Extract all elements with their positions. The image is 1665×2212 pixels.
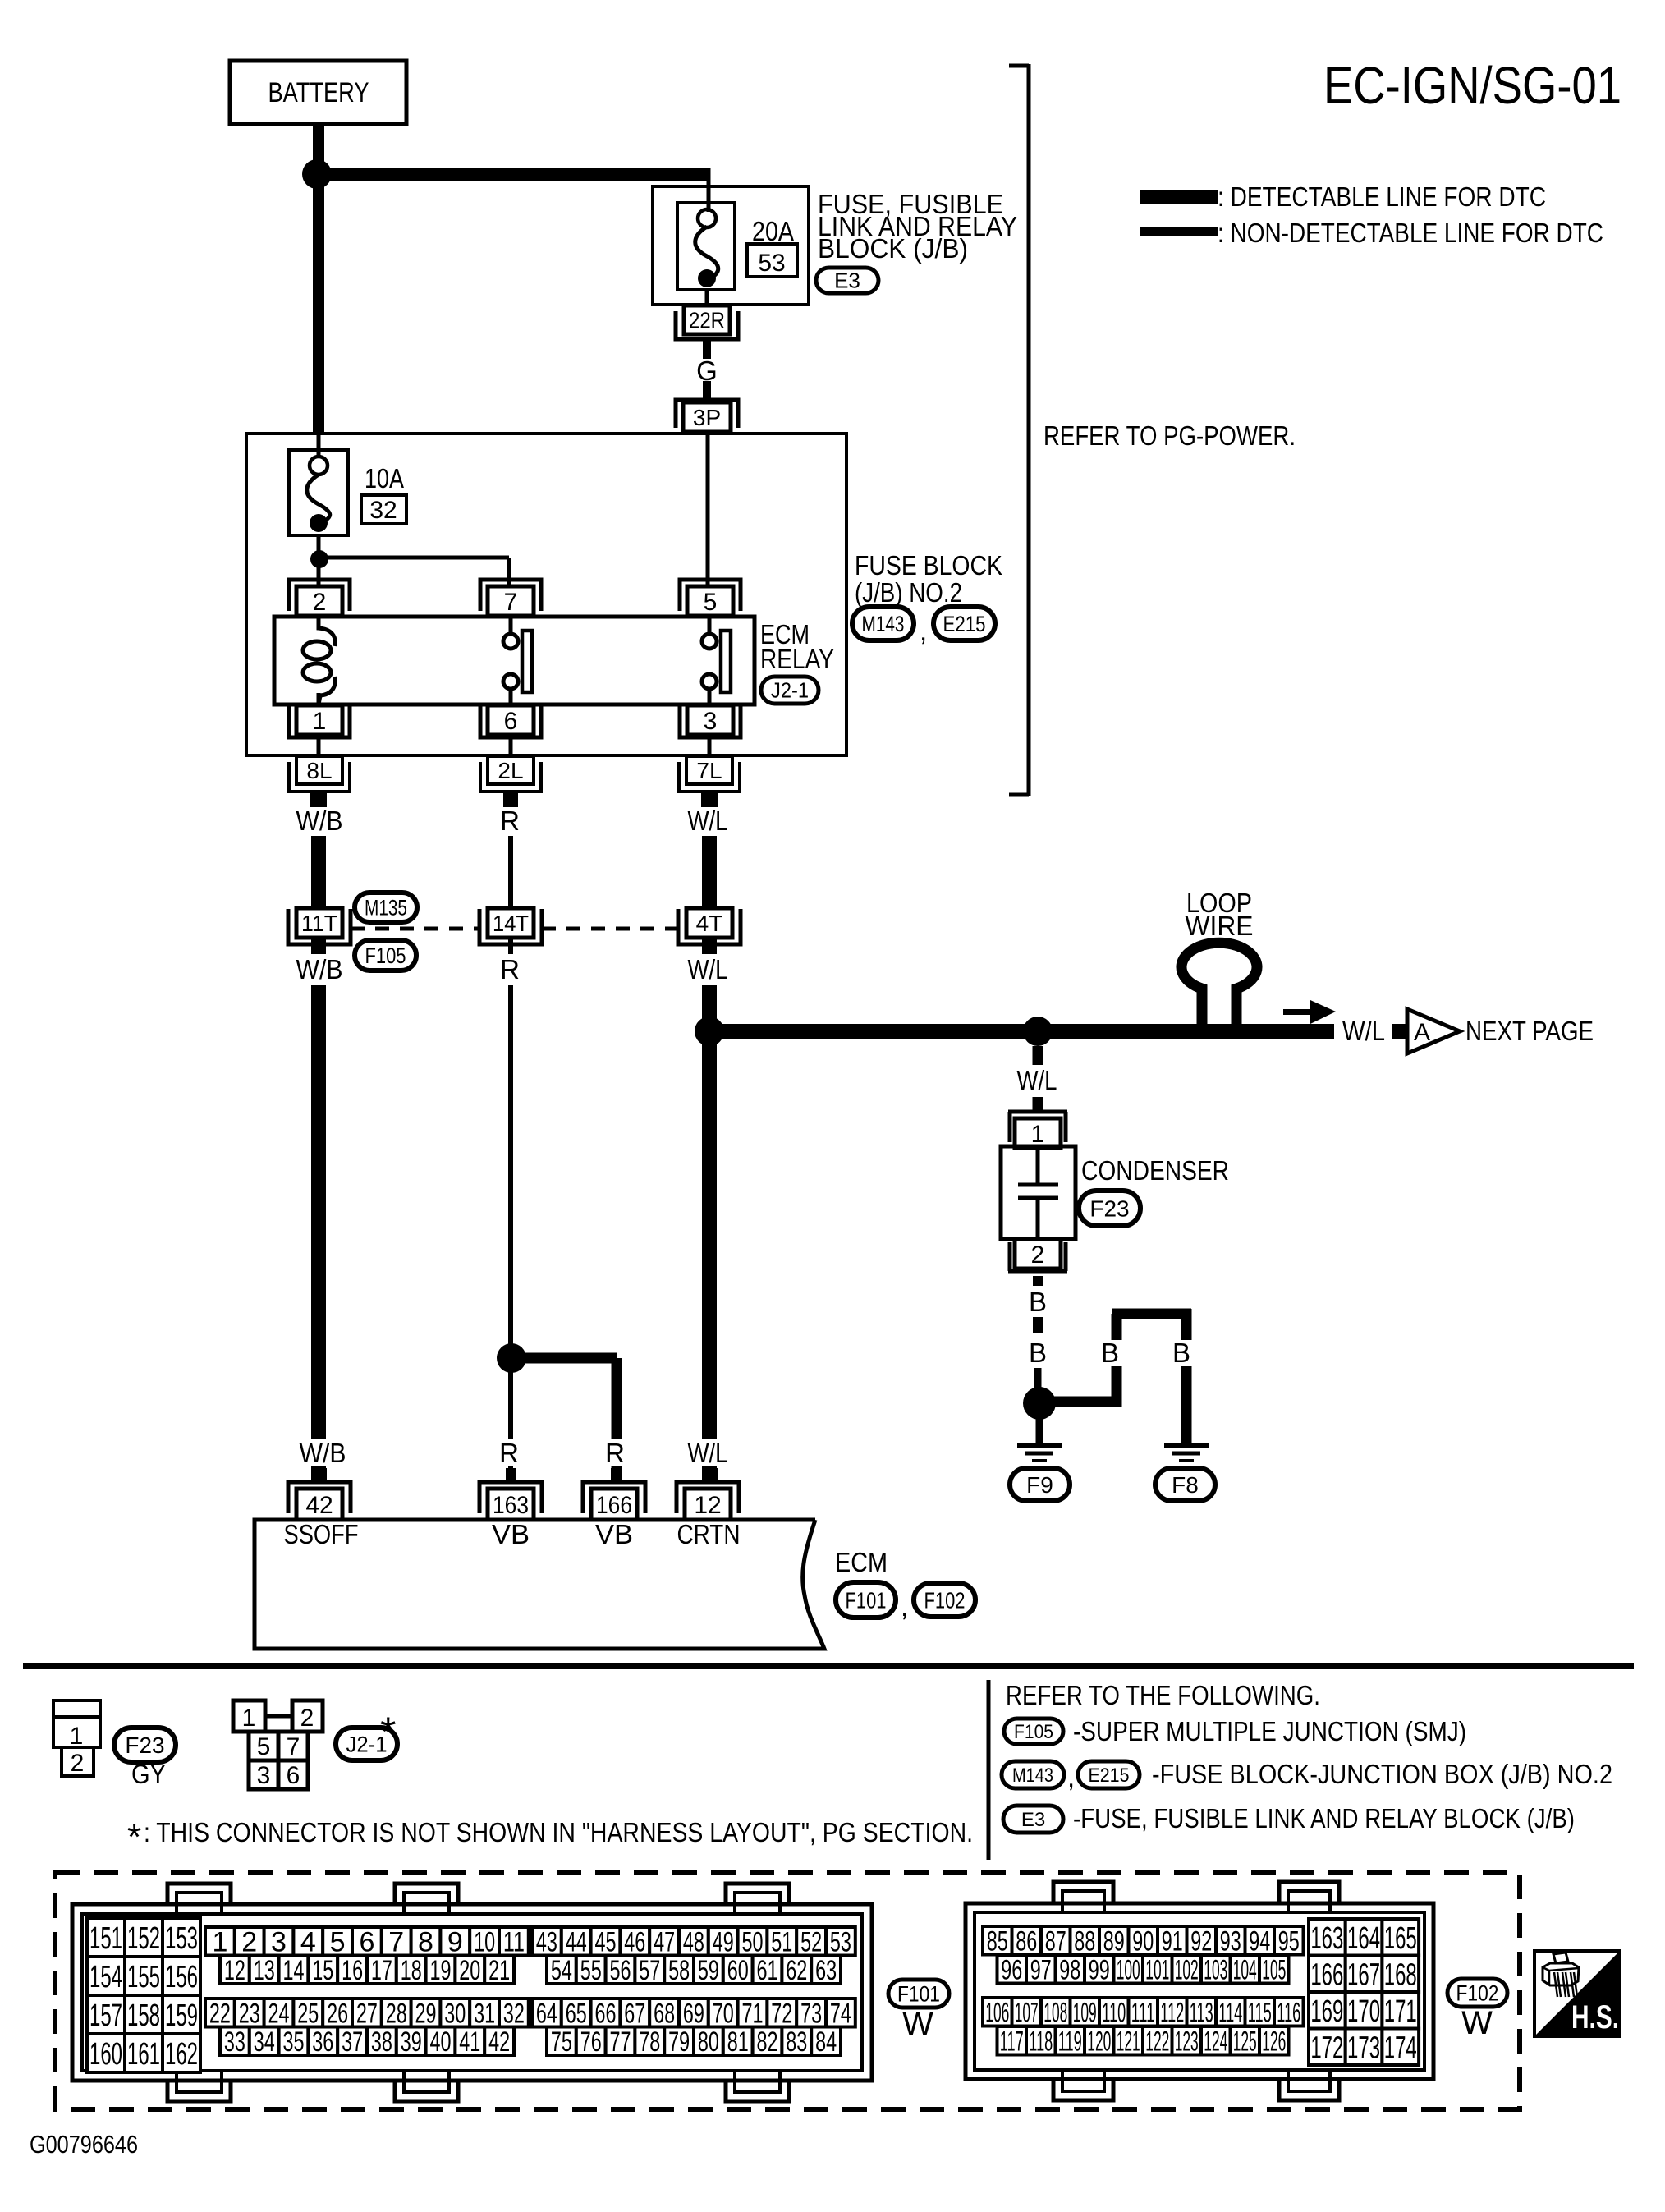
svg-text:BLOCK (J/B): BLOCK (J/B) [818,233,968,264]
svg-text:82: 82 [757,2026,778,2058]
svg-text:117: 117 [1000,2026,1024,2057]
svg-text:,: , [920,616,927,646]
svg-text:35: 35 [283,2026,305,2058]
svg-text:159: 159 [165,1999,198,2033]
svg-text:2: 2 [71,1750,85,1777]
svg-text:B: B [1172,1338,1190,1368]
svg-text:22: 22 [209,1998,231,2029]
svg-text:24: 24 [268,1998,290,2029]
svg-text:102: 102 [1175,1954,1199,1985]
svg-text:R: R [500,805,520,836]
svg-text:80: 80 [698,2026,719,2058]
svg-text:F101: F101 [897,1981,940,2006]
svg-text:120: 120 [1087,2026,1111,2057]
svg-text:7: 7 [388,1926,404,1957]
svg-text:12: 12 [694,1492,721,1519]
svg-text:162: 162 [165,2037,198,2072]
svg-text:,: , [1067,1762,1075,1792]
svg-text:44: 44 [566,1926,587,1957]
svg-text:W/L: W/L [1017,1065,1057,1095]
svg-text:91: 91 [1162,1925,1183,1957]
svg-text:168: 168 [1384,1957,1417,1992]
svg-text:157: 157 [89,1999,122,2033]
svg-text:31: 31 [474,1998,495,2029]
svg-text:42: 42 [488,2026,510,2058]
svg-text:51: 51 [771,1926,792,1957]
svg-text:W: W [902,2006,933,2042]
svg-text:CONDENSER: CONDENSER [1081,1155,1229,1186]
svg-text:71: 71 [742,1998,764,2029]
svg-text:R: R [605,1438,625,1468]
svg-text:GY: GY [131,1759,166,1789]
svg-text:153: 153 [165,1921,198,1956]
svg-text:F101: F101 [846,1587,887,1613]
svg-text:103: 103 [1204,1954,1227,1985]
svg-text:32: 32 [503,1998,525,2029]
svg-text:114: 114 [1218,1997,1242,2028]
svg-text:94: 94 [1249,1925,1270,1957]
svg-text:: DETECTABLE LINE FOR DTC: : DETECTABLE LINE FOR DTC [1218,181,1546,212]
svg-text:20: 20 [459,1955,480,1986]
svg-text:J2-1: J2-1 [771,678,809,703]
svg-text:F23: F23 [125,1732,164,1758]
svg-text:34: 34 [254,2026,275,2058]
svg-text:5: 5 [330,1926,346,1957]
svg-text:104: 104 [1233,1954,1257,1985]
svg-text:W: W [1461,2005,1493,2041]
svg-text:E215: E215 [1089,1765,1130,1787]
svg-text:23: 23 [239,1998,260,2029]
svg-text:EC-IGN/SG-01: EC-IGN/SG-01 [1323,56,1621,115]
svg-text:BATTERY: BATTERY [268,77,369,108]
svg-text:68: 68 [654,1998,675,2029]
svg-text:85: 85 [987,1925,1008,1957]
svg-text:3P: 3P [693,405,721,430]
svg-text:45: 45 [595,1926,617,1957]
svg-text:3: 3 [704,708,718,735]
svg-text:166: 166 [596,1492,632,1519]
svg-text:43: 43 [536,1926,557,1957]
svg-text:2: 2 [313,589,327,616]
svg-text:F102: F102 [1456,1980,1499,2005]
svg-text:1: 1 [212,1926,227,1957]
svg-text:48: 48 [683,1926,704,1957]
svg-text:14T: 14T [493,911,529,936]
svg-text:1: 1 [313,708,327,735]
svg-text:56: 56 [610,1955,631,1986]
svg-text:86: 86 [1016,1925,1037,1957]
svg-text:90: 90 [1132,1925,1154,1957]
svg-text:93: 93 [1220,1925,1241,1957]
svg-text:20A: 20A [752,216,794,246]
svg-text:REFER TO THE FOLLOWING.: REFER TO THE FOLLOWING. [1006,1680,1320,1710]
svg-text:105: 105 [1262,1954,1286,1985]
svg-text:125: 125 [1233,2026,1257,2057]
svg-text:26: 26 [327,1998,348,2029]
svg-text:54: 54 [551,1955,572,1986]
svg-text:170: 170 [1347,1994,1380,2029]
svg-text:VB: VB [492,1519,530,1549]
svg-text:111: 111 [1131,1997,1155,2028]
svg-text:E3: E3 [834,268,860,293]
svg-text:29: 29 [415,1998,437,2029]
svg-text:13: 13 [254,1955,275,1986]
svg-text:3: 3 [271,1926,287,1957]
svg-text:53: 53 [830,1926,851,1957]
svg-text:2L: 2L [498,758,523,783]
svg-text:25: 25 [297,1998,319,2029]
svg-text:70: 70 [713,1998,734,2029]
svg-text:76: 76 [580,2026,602,2058]
svg-text:11: 11 [503,1926,525,1957]
svg-text:112: 112 [1160,1997,1184,2028]
svg-text:161: 161 [127,2037,160,2072]
svg-text:169: 169 [1310,1994,1343,2029]
svg-text:F8: F8 [1172,1472,1199,1498]
svg-text:W/B: W/B [296,805,343,836]
svg-text:38: 38 [371,2026,392,2058]
svg-text:123: 123 [1175,2026,1199,2057]
svg-text:109: 109 [1073,1997,1097,2028]
svg-text:99: 99 [1089,1954,1110,1985]
svg-text:33: 33 [224,2026,245,2058]
svg-text:158: 158 [127,1999,160,2033]
svg-text:64: 64 [536,1998,557,2029]
svg-text:16: 16 [342,1955,363,1986]
svg-text:41: 41 [459,2026,480,2058]
svg-text:G00796646: G00796646 [30,2130,138,2159]
svg-text:G: G [696,356,718,386]
svg-text:27: 27 [356,1998,378,2029]
svg-text:E215: E215 [943,612,986,636]
svg-text:46: 46 [624,1926,645,1957]
svg-text:163: 163 [1310,1921,1343,1956]
svg-text:152: 152 [127,1921,160,1956]
svg-text:W/B: W/B [300,1438,346,1468]
svg-text:55: 55 [580,1955,602,1986]
svg-text:WIRE: WIRE [1186,911,1254,941]
svg-text:97: 97 [1030,1954,1052,1985]
svg-text:: NON-DETECTABLE LINE FOR DTC: : NON-DETECTABLE LINE FOR DTC [1218,218,1603,248]
svg-text:10: 10 [474,1926,495,1957]
svg-text:R: R [500,954,520,984]
svg-text:164: 164 [1347,1921,1380,1956]
svg-text:126: 126 [1262,2026,1286,2057]
svg-text:166: 166 [1310,1957,1343,1992]
svg-text:W/L: W/L [688,1438,728,1468]
svg-text:W/B: W/B [296,954,343,984]
svg-text:1: 1 [1031,1121,1045,1148]
svg-text:VB: VB [595,1519,633,1549]
svg-text:106: 106 [985,1997,1009,2028]
svg-text:-FUSE, FUSIBLE LINK AND RELAY: -FUSE, FUSIBLE LINK AND RELAY BLOCK (J/B… [1073,1803,1575,1833]
svg-text:B: B [1029,1287,1047,1317]
svg-text:W/L: W/L [1342,1016,1385,1046]
svg-text:155: 155 [127,1960,160,1994]
svg-text:H.S.: H.S. [1571,1999,1619,2035]
svg-text:,: , [901,1591,908,1622]
svg-text:72: 72 [771,1998,792,2029]
svg-text:92: 92 [1190,1925,1212,1957]
svg-text:163: 163 [493,1492,529,1519]
svg-text:173: 173 [1347,2031,1380,2065]
svg-text:74: 74 [830,1998,851,2029]
svg-text:53: 53 [758,250,785,277]
svg-text:122: 122 [1145,2026,1169,2057]
svg-text:RELAY: RELAY [760,644,834,674]
svg-text:*: * [127,1817,141,1857]
svg-text:62: 62 [786,1955,807,1986]
svg-text:165: 165 [1384,1921,1417,1956]
svg-text:118: 118 [1029,2026,1053,2057]
svg-text:58: 58 [668,1955,690,1986]
svg-text:32: 32 [369,497,397,524]
svg-text:19: 19 [430,1955,452,1986]
svg-text:*: * [380,1709,396,1755]
svg-text:39: 39 [401,2026,422,2058]
svg-text:40: 40 [430,2026,452,2058]
svg-text:151: 151 [89,1921,122,1956]
svg-text:96: 96 [1001,1954,1022,1985]
svg-text:66: 66 [595,1998,617,2029]
svg-text:116: 116 [1277,1997,1300,2028]
svg-text:49: 49 [713,1926,734,1957]
svg-text:37: 37 [342,2026,363,2058]
svg-text:121: 121 [1117,2026,1140,2057]
svg-text:107: 107 [1015,1997,1039,2028]
svg-text:4T: 4T [696,911,723,936]
svg-text:119: 119 [1058,2026,1082,2057]
svg-text:M143: M143 [1012,1765,1053,1787]
svg-text:11T: 11T [301,911,337,936]
svg-text:(J/B) NO.2: (J/B) NO.2 [855,577,962,608]
svg-text:6: 6 [504,708,518,735]
svg-text:M135: M135 [365,895,407,920]
svg-text:3: 3 [257,1762,271,1789]
svg-text:167: 167 [1347,1957,1380,1992]
svg-text:89: 89 [1103,1925,1125,1957]
svg-text:42: 42 [305,1492,333,1519]
svg-text:8: 8 [418,1926,433,1957]
svg-text:69: 69 [683,1998,704,2029]
svg-text:W/L: W/L [688,805,728,836]
svg-text:FUSE BLOCK: FUSE BLOCK [855,550,1002,581]
svg-text:22R: 22R [689,308,725,333]
svg-text:67: 67 [624,1998,645,2029]
svg-text:F105: F105 [1014,1721,1053,1743]
svg-text:2: 2 [241,1926,257,1957]
svg-text:75: 75 [551,2026,572,2058]
svg-text:6: 6 [287,1762,300,1789]
svg-text:-FUSE BLOCK-JUNCTION BOX (J/B): -FUSE BLOCK-JUNCTION BOX (J/B) NO.2 [1152,1759,1612,1789]
svg-text:63: 63 [815,1955,837,1986]
svg-text:F102: F102 [924,1587,966,1613]
svg-text:6: 6 [359,1926,374,1957]
svg-text:36: 36 [312,2026,333,2058]
svg-text:12: 12 [224,1955,245,1986]
svg-text:9: 9 [447,1926,463,1957]
svg-text:2: 2 [1031,1241,1045,1269]
svg-text:110: 110 [1102,1997,1126,2028]
svg-text:NEXT PAGE: NEXT PAGE [1465,1016,1594,1046]
svg-text:30: 30 [444,1998,466,2029]
svg-text:A: A [1414,1019,1430,1046]
svg-text:87: 87 [1045,1925,1066,1957]
svg-text:B: B [1029,1338,1047,1368]
svg-text:F105: F105 [365,943,406,968]
svg-text:28: 28 [386,1998,407,2029]
svg-text:B: B [1101,1338,1119,1368]
svg-text:88: 88 [1074,1925,1095,1957]
svg-text:21: 21 [488,1955,510,1986]
svg-text:98: 98 [1059,1954,1080,1985]
svg-text:F23: F23 [1089,1195,1129,1221]
svg-text:SSOFF: SSOFF [284,1519,359,1549]
svg-text:7: 7 [504,589,518,616]
svg-text:59: 59 [698,1955,719,1986]
svg-text:18: 18 [401,1955,422,1986]
svg-text:61: 61 [757,1955,778,1986]
svg-text:50: 50 [742,1926,764,1957]
svg-text:: THIS CONNECTOR IS NOT SHOWN: : THIS CONNECTOR IS NOT SHOWN IN "HARNES… [144,1817,973,1847]
svg-text:CRTN: CRTN [677,1519,741,1549]
svg-text:M143: M143 [862,612,905,636]
svg-text:REFER TO PG-POWER.: REFER TO PG-POWER. [1043,420,1296,451]
svg-text:5: 5 [257,1733,271,1760]
svg-text:E3: E3 [1021,1809,1045,1831]
svg-text:60: 60 [727,1955,749,1986]
svg-text:113: 113 [1190,1997,1213,2028]
svg-text:172: 172 [1310,2031,1343,2065]
svg-text:101: 101 [1145,1954,1169,1985]
svg-text:174: 174 [1384,2031,1417,2065]
svg-text:7: 7 [287,1733,300,1760]
svg-text:-SUPER MULTIPLE JUNCTION (SMJ): -SUPER MULTIPLE JUNCTION (SMJ) [1073,1716,1466,1746]
svg-text:10A: 10A [365,463,404,493]
svg-text:57: 57 [639,1955,660,1986]
svg-text:156: 156 [165,1960,198,1994]
svg-text:65: 65 [566,1998,587,2029]
svg-text:ECM: ECM [835,1547,888,1577]
svg-text:5: 5 [704,589,718,616]
svg-text:52: 52 [800,1926,822,1957]
svg-text:8L: 8L [306,758,332,783]
svg-text:78: 78 [639,2026,660,2058]
svg-text:W/L: W/L [688,954,728,984]
svg-text:R: R [499,1438,519,1468]
svg-text:83: 83 [786,2026,807,2058]
svg-text:2: 2 [300,1705,314,1732]
svg-text:7L: 7L [696,758,722,783]
svg-text:79: 79 [668,2026,690,2058]
svg-text:4: 4 [300,1926,316,1957]
svg-text:84: 84 [815,2026,837,2058]
svg-text:108: 108 [1043,1997,1067,2028]
svg-text:115: 115 [1248,1997,1272,2028]
svg-text:171: 171 [1384,1994,1417,2029]
svg-text:77: 77 [610,2026,631,2058]
svg-text:100: 100 [1117,1954,1140,1985]
svg-text:15: 15 [312,1955,333,1986]
svg-text:1: 1 [242,1705,256,1732]
svg-text:14: 14 [283,1955,305,1986]
svg-text:F9: F9 [1026,1472,1053,1498]
svg-text:17: 17 [371,1955,392,1986]
svg-text:160: 160 [89,2037,122,2072]
svg-text:154: 154 [89,1960,122,1994]
svg-text:73: 73 [800,1998,822,2029]
svg-text:81: 81 [727,2026,749,2058]
svg-text:124: 124 [1204,2026,1227,2057]
svg-text:47: 47 [654,1926,675,1957]
svg-text:95: 95 [1278,1925,1300,1957]
